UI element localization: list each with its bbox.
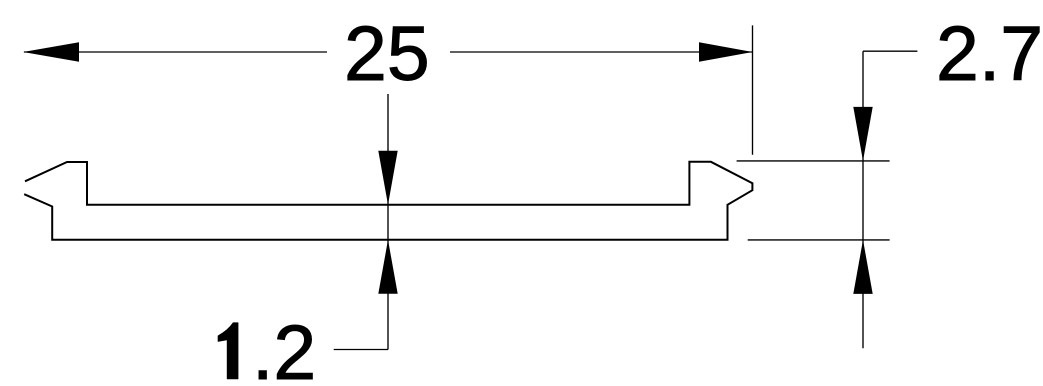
arrowhead up at web bottom (1.2 dimension) <box>378 240 397 294</box>
arrowhead left of 25 dimension <box>23 42 79 61</box>
dimension leader vertical line 1.2 <box>387 94 389 350</box>
svg-text:2.7: 2.7 <box>936 11 1043 97</box>
arrowhead down at top extension (2.7 dimension) <box>853 107 872 161</box>
extension line right of 25 dimension <box>752 25 754 154</box>
profile outline (extrusion cross-section) <box>24 162 752 240</box>
arrowhead right of 25 dimension <box>699 42 753 61</box>
arrowhead up at bottom extension (2.7 dimension) <box>853 240 872 294</box>
dimension line 25 (left segment) <box>24 51 327 53</box>
dimension line 25 (right segment) <box>450 51 753 53</box>
dimension leader horizontal line 2.7 <box>863 50 917 52</box>
extension line top of 2.7 dimension <box>737 160 890 162</box>
svg-text:.2: .2 <box>252 310 316 386</box>
svg-text:25: 25 <box>344 11 430 97</box>
extension line bottom of 2.7 dimension <box>748 239 890 241</box>
dimension line vertical 2.7 <box>862 51 864 348</box>
dimension leader horizontal line 1.2 <box>334 349 388 351</box>
dimension text 1.2 : digit 1 (custom glyph) <box>218 323 238 379</box>
arrowhead down at web top (1.2 dimension) <box>378 151 397 205</box>
